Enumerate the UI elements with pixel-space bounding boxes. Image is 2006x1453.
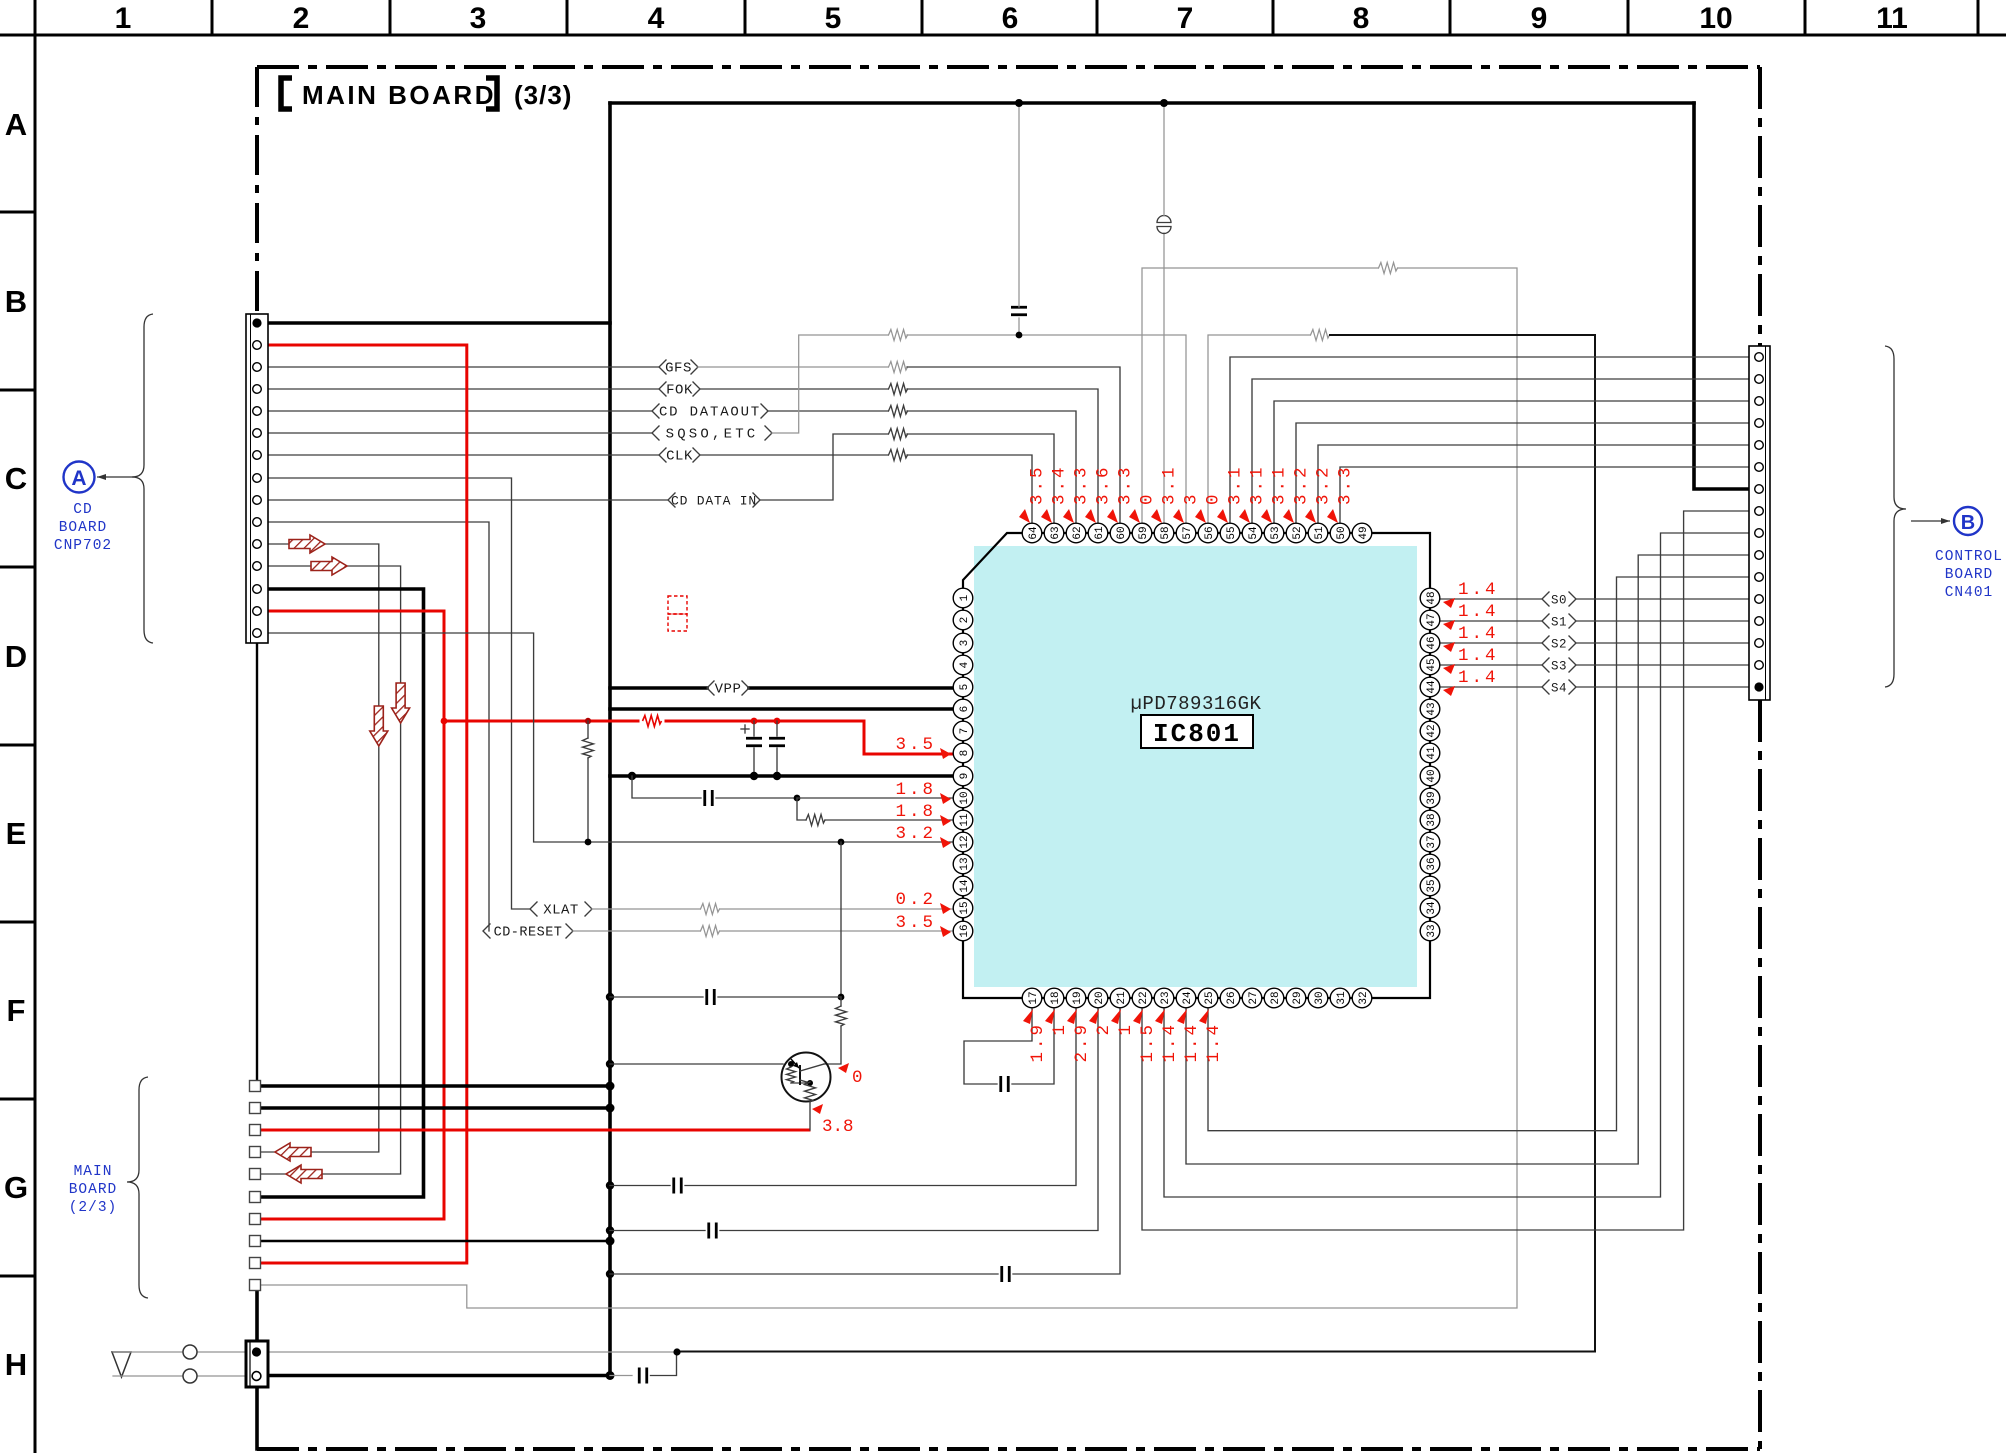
capacitor C 997 [707,989,715,1005]
IC801 fill [974,546,1417,987]
svg-text:14: 14 [959,879,971,893]
wire bus to cap1185 [610,1185,670,1187]
IC801 pin 37 [1420,832,1440,852]
svg-text:9: 9 [959,773,971,780]
wire CNP702 pin10 to CD-RESET riser [261,522,489,931]
IC801 pin 54 [1242,523,1262,543]
wire red MAIN(2/3) pin3 to transistor [261,1129,809,1132]
IC801 pin 30 [1308,988,1328,1008]
board border left lower [255,1290,259,1341]
IC801 pin 41 [1420,743,1440,763]
voltage 1.4 arrow pin47 [1443,620,1455,630]
svg-text:3.1: 3.1 [1160,464,1180,505]
svg-text:2.9: 2.9 [1072,1022,1092,1063]
wire top power bus [610,101,1694,105]
svg-text:3.2: 3.2 [1292,464,1312,505]
transistor Q1 body [782,1053,831,1102]
svg-text:GFS: GFS [665,361,692,377]
svg-text:BOARD: BOARD [69,1182,118,1198]
wire res588 lower lead [587,758,589,842]
wire IC pin46 to S2 label [1440,642,1542,644]
IC801 pin 10 [953,788,973,808]
svg-text:29: 29 [1292,991,1304,1004]
svg-text:30: 30 [1314,991,1326,1004]
resistor R collector [836,1006,847,1026]
connector CN401 [1749,346,1770,700]
brace MAIN BOARD(2/3) [127,1077,148,1298]
svg-text:18: 18 [1050,991,1062,1004]
svg-text:42: 42 [1426,724,1438,737]
capacitor C row1230 [709,1223,717,1239]
wire H row1 [113,1351,677,1353]
svg-text:37: 37 [1426,835,1438,848]
wire bus to cap1274 [610,1273,998,1275]
svg-text:2: 2 [959,617,971,624]
svg-text:15: 15 [959,901,971,914]
wire link to top bus [1163,103,1165,216]
IC801 pin 26 [1220,988,1240,1008]
IC801 pin 24 [1176,988,1196,1008]
wire CD-RESET to resistor [573,930,700,932]
junction pin9 cap B [773,772,781,780]
svg-text:A: A [71,467,86,490]
IC801 pin 51 [1308,523,1328,543]
svg-text:CD DATAOUT: CD DATAOUT [659,405,761,421]
svg-text:64: 64 [1028,526,1040,540]
svg-text:3.8: 3.8 [822,1117,854,1137]
voltage arrow pin24 [1177,1009,1187,1024]
title bracket right [486,78,497,109]
wire IC pin25 to CN401 pin11 [1208,577,1755,1131]
svg-text:48: 48 [1426,591,1438,604]
IC801 pin 7 [953,721,973,741]
svg-text:2: 2 [1094,1022,1114,1036]
svg-text:31: 31 [1336,991,1348,1005]
wire IC pin52 to CN401 pin4 [1296,423,1755,523]
junction bus G2 [606,1104,615,1113]
svg-text:3.5: 3.5 [1028,464,1048,505]
ferrite link symbol [1157,216,1171,234]
node label FOK [659,382,700,399]
wire capH to riser [651,1352,677,1376]
svg-text:55: 55 [1226,526,1238,539]
wire cap1185 to IC pin19 [685,1008,1076,1186]
IC801 pin 32 [1352,988,1372,1008]
wire S1 to CN401 pin13 [1576,620,1755,622]
svg-text:45: 45 [1426,658,1438,671]
IC801 pin 64 [1022,523,1042,543]
IC801 pin 39 [1420,788,1440,808]
wire pin9 branch down [632,776,701,798]
svg-text:CN401: CN401 [1945,585,1994,601]
svg-text:6: 6 [959,706,971,713]
svg-text:VPP: VPP [715,682,742,698]
wire CNP702 pin13 to MAIN(2/3) pin6 [261,589,424,1197]
svg-text:3: 3 [470,2,487,35]
junction bus row1230 [606,1226,614,1234]
voltage arrow pin60 [1107,509,1118,523]
wire emitter to red row [809,1102,811,1130]
IC801 pin 45 [1420,655,1440,675]
IC801 pin 9 [953,766,973,786]
wire bus to transistor base [610,1063,783,1065]
node B arrow [1911,518,1950,524]
IC801 pin 35 [1420,876,1440,896]
svg-text:7: 7 [1177,2,1194,35]
wire IC pin17 to cap [964,1008,1032,1084]
svg-text:0: 0 [852,1068,863,1088]
junction bus row1185 [606,1181,614,1189]
wire SQSO riser [772,335,888,433]
wire row335b to H junction [677,335,1595,1352]
IC801 pin 20 [1088,988,1108,1008]
wire CNP702 pin4 to FOK [261,388,659,390]
IC801 pin 11 [953,810,973,830]
wire IC pin51 to CN401 pin5 [1318,445,1755,523]
svg-text:51: 51 [1314,526,1326,540]
svg-text:56: 56 [1204,526,1216,539]
wire cap1230 to IC pin20 [720,1008,1098,1231]
svg-text:3.3: 3.3 [1072,464,1092,505]
wire IC pin45 to S3 label [1440,664,1542,666]
svg-text:1.4: 1.4 [1458,668,1499,688]
IC801 pin 59 [1132,523,1152,543]
wire CNP702 pin5 to CD DATAOUT [261,410,652,412]
svg-text:E: E [6,816,27,851]
junction pin9 branch [628,772,636,780]
svg-text:1.4: 1.4 [1458,580,1499,600]
brace CNP702 [132,314,153,643]
resistor R emitter [805,1082,816,1102]
wire row268 to MAIN(2/3) pin10 [261,268,1517,1308]
voltage arrow pin10 [940,793,951,804]
svg-text:22: 22 [1138,991,1150,1004]
svg-text:3: 3 [1182,491,1202,505]
wire FOK resistor to IC pin61 [907,389,1098,523]
junction bus G8 [606,1237,615,1246]
option jumper dashed box [668,596,687,631]
capacitor C elec A [746,738,762,746]
IC801 pin 38 [1420,810,1440,830]
capacitor C B [769,738,785,746]
svg-text:MAIN BOARD: MAIN BOARD [302,80,496,110]
wire IC pin47 to S1 label [1440,620,1542,622]
test point circle row1 [183,1345,197,1359]
svg-text:CNP702: CNP702 [54,538,112,554]
svg-text:40: 40 [1426,769,1438,782]
label CONTROL BOARD CN401 [1935,549,2003,601]
svg-text:9: 9 [1531,2,1548,35]
svg-text:60: 60 [1116,526,1128,539]
svg-text:5: 5 [825,2,842,35]
wire cap A lead [753,721,755,736]
wire main vertical bus [608,103,612,1376]
wire cap A lower lead [753,748,755,776]
IC801 pin 62 [1066,523,1086,543]
wire bus to CN401 pin7 [1694,103,1755,489]
wire IC pin24 to CN401 pin10 [1186,555,1755,1164]
svg-text:16: 16 [959,924,971,937]
svg-text:7: 7 [959,728,971,735]
wire CNP702 pin8 to XLAT riser [261,478,530,909]
connector MAIN BOARD(2/3) pins [250,1081,261,1291]
IC801 pin 1 [953,588,973,608]
IC801 pin 29 [1286,988,1306,1008]
signal arrow down 2 [392,683,410,723]
junction row335-cap [1016,332,1023,339]
svg-text:28: 28 [1270,991,1282,1004]
ruler row ticks [0,212,35,1276]
IC801 pin 23 [1154,988,1174,1008]
node label GFS [659,360,698,377]
svg-text:IC801: IC801 [1153,719,1241,749]
wire junction to resistor [797,798,806,820]
resistor R pin11 [806,815,825,826]
node A circle [64,462,95,493]
svg-text:38: 38 [1426,813,1438,826]
red junction cap B [774,718,781,725]
IC801 outline [963,533,1430,998]
wire red resistor to IC pin8 [666,721,955,754]
IC801 pin 22 [1132,988,1152,1008]
voltage arrow pin51 [1305,509,1316,523]
wire MAIN(2/3) pin1 to bus [261,1084,610,1088]
svg-text:13: 13 [959,857,971,870]
red junction branch [441,718,448,725]
wire CD DATA IN riser [760,434,888,500]
wire cap B lead [776,721,778,736]
junction pin10 net [794,795,801,802]
connector CNP702 pins [252,318,261,637]
IC801 pin 4 [953,655,973,675]
svg-text:47: 47 [1426,613,1438,626]
board border left upper [255,67,259,314]
IC801 pin 34 [1420,898,1440,918]
wire cap to IC pin18 [1012,1008,1054,1084]
svg-text:3: 3 [959,640,971,647]
wire IC pin54 to CN401 pin2 [1252,379,1755,523]
voltage arrow pin18 [1045,1009,1055,1024]
test point circle row2 [183,1369,197,1383]
IC801 pin 21 [1110,988,1130,1008]
svg-text:34: 34 [1426,901,1438,915]
svg-text:46: 46 [1426,636,1438,649]
resistor R 588 [583,738,594,758]
wire IC pin56 riser [1208,335,1310,523]
voltage 3.8 arrow at emitter [812,1104,823,1114]
IC801 pin 12 [953,832,973,852]
wire CD DATAOUT resistor to IC pin62 [907,411,1076,523]
svg-text:G: G [4,1170,28,1205]
voltage arrow pin8 [940,748,951,759]
IC801 pin 6 [953,699,973,719]
svg-text:FOK: FOK [666,383,693,399]
capacitor C row1185 [674,1178,682,1194]
ruler column numbers 1-11 [115,2,1908,35]
svg-text:1.4: 1.4 [1458,602,1499,622]
svg-text:50: 50 [1336,526,1348,539]
svg-text:F: F [7,993,26,1028]
signal arrow right 1 [289,535,325,553]
wire red CNP702 pin14 vertical [261,611,444,1219]
node label XLAT [530,902,592,919]
IC801 pin 40 [1420,766,1440,786]
svg-text:8: 8 [1353,2,1370,35]
wire CNP702 pin1 to bus [261,321,610,325]
wire cap B lower lead [776,748,778,776]
node label CD DATA IN [668,493,760,509]
wire cap1274 to IC pin21 [1013,1008,1120,1274]
wire CNP702 pin3 to GFS [261,366,659,368]
IC801 designator box [1141,715,1253,748]
junction bus cap997 [606,993,614,1001]
node label S4 [1542,680,1576,696]
svg-text:CD DATA IN: CD DATA IN [671,494,757,509]
voltage arrow pin21 [1111,1009,1121,1024]
svg-text:11: 11 [959,813,971,827]
svg-text:26: 26 [1226,991,1238,1004]
wire XLAT resistor to IC pin15 [720,908,963,910]
voltage arrow pin54 [1239,509,1250,523]
resistor R row335b [1311,330,1330,341]
svg-text:6: 6 [1002,2,1019,35]
voltage arrow pin55 [1217,509,1228,523]
node label CLK [659,448,700,465]
svg-text:S2: S2 [1551,638,1567,652]
IC801 pin 57 [1176,523,1196,543]
IC801 pin 17 [1022,988,1042,1008]
svg-text:8: 8 [959,750,971,757]
svg-text:54: 54 [1248,526,1260,540]
svg-text:32: 32 [1358,991,1370,1004]
svg-text:62: 62 [1072,526,1084,539]
svg-text:36: 36 [1426,857,1438,870]
IC801 pin 43 [1420,699,1440,719]
IC801 pin 49 [1352,523,1372,543]
svg-text:12: 12 [959,835,971,848]
board border top [257,65,1760,69]
IC801 pin 52 [1286,523,1306,543]
voltage 1.4 arrow pin44 [1443,686,1455,696]
IC801 pin 44 [1420,677,1440,697]
voltage arrow pin15 [940,903,951,914]
IC801 pin 19 [1066,988,1086,1008]
svg-text:57: 57 [1182,526,1194,539]
node label S0 [1542,592,1576,608]
voltage 1.4 arrow pin46 [1443,642,1455,652]
junction pin9 cap A [750,772,758,780]
svg-text:39: 39 [1426,791,1438,804]
svg-text:24: 24 [1182,991,1194,1005]
resistor R GFS [889,362,908,373]
wire IC pin48 to S0 label [1440,598,1542,600]
connector H [246,1341,268,1387]
node label S1 [1542,614,1576,630]
svg-text:H: H [5,1347,27,1382]
svg-text:58: 58 [1160,526,1172,539]
svg-text:25: 25 [1204,991,1216,1004]
IC801 pin 55 [1220,523,1240,543]
svg-text:1.8: 1.8 [895,802,936,822]
svg-text:(2/3): (2/3) [69,1200,118,1216]
wire H pin2 to bus [268,1374,610,1378]
wire XLAT to resistor [592,908,700,910]
svg-text:CD-RESET: CD-RESET [494,926,563,941]
node label VPP [707,681,749,698]
svg-text:1: 1 [1050,1022,1070,1036]
svg-text:S1: S1 [1551,616,1567,630]
wire IC pin22 to CN401 pin8 [1142,511,1755,1230]
capacitor C H [639,1368,647,1384]
IC801 pin 42 [1420,721,1440,741]
ground triangle [112,1352,131,1377]
IC801 pin 31 [1330,988,1350,1008]
capacitor C row1274 [1002,1266,1010,1282]
svg-text:11: 11 [1876,2,1908,35]
svg-text:1.8: 1.8 [895,780,936,800]
svg-text:19: 19 [1072,991,1084,1004]
wire bus to cap997 [610,996,703,998]
svg-text:S0: S0 [1551,594,1567,608]
svg-text:1.9: 1.9 [1028,1022,1048,1063]
connector CN401 pins [1754,353,1763,692]
voltage arrow pin64 [1019,509,1030,523]
svg-text:D: D [5,639,27,674]
wire CLK resistor to IC pin64 [907,455,1032,523]
svg-text:1: 1 [115,2,132,35]
junction bus G1 [606,1082,615,1091]
svg-text:C: C [5,461,27,496]
svg-text:3.2: 3.2 [1314,464,1334,505]
wire cap997 to vert841 [718,996,841,998]
capacitor plus sign [741,725,749,733]
svg-text:33: 33 [1426,924,1438,937]
node label SQSO,ETC [652,426,772,443]
board border right upper [1758,67,1762,346]
svg-text:1.5: 1.5 [1138,1022,1158,1063]
svg-text:52: 52 [1292,526,1304,539]
resistor R CD DATA IN [889,429,908,440]
junction vert841 cap row [838,994,845,1001]
wire IC pin44 to S4 label [1440,686,1542,688]
capacitor C pin10 net [705,790,713,806]
svg-text:B: B [1961,512,1975,534]
wire bus to IC pin6 [610,707,963,711]
svg-text:SQSO,ETC: SQSO,ETC [666,427,759,443]
svg-text:XLAT: XLAT [543,903,579,919]
svg-text:1.4: 1.4 [1182,1022,1202,1063]
border ruler top line [0,34,2006,37]
svg-text:44: 44 [1426,680,1438,694]
IC801 pin 25 [1198,988,1218,1008]
svg-text:µPD789316GK: µPD789316GK [1131,693,1262,715]
svg-text:3.1: 3.1 [1226,464,1246,505]
svg-text:3.5: 3.5 [895,913,936,933]
voltage arrow pin63 [1041,509,1052,523]
wire IC pin58 riser [1163,233,1165,523]
wire resistor to IC pin11 [825,819,963,821]
voltage arrow pin12 [940,837,951,848]
svg-text:3.4: 3.4 [1050,464,1070,505]
svg-text:3.6: 3.6 [1094,464,1114,505]
connector CNP702 [246,314,268,643]
board border left bottom [255,1387,259,1449]
wire CNP702 pin15 to row842 [261,633,963,842]
node B circle [1954,507,1982,535]
wire GFS resistor to IC pin60 [907,367,1120,523]
border ruler left line [34,0,37,1453]
svg-text:59: 59 [1138,526,1150,539]
